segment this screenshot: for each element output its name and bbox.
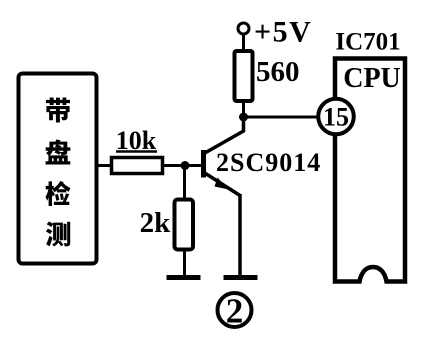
node: base junction dot — [181, 161, 190, 170]
label: Chinese char JIAN (检) — [46, 181, 71, 206]
svg-text:560: 560 — [256, 56, 300, 88]
wire: R 10k to transistor base — [163, 164, 202, 167]
resistor R 10k — [112, 158, 163, 174]
figure number circled 2 — [218, 293, 252, 327]
transistor collector lead — [204, 116, 244, 154]
svg-text:IC701: IC701 — [335, 29, 400, 56]
label: Chinese char DAI (带) — [46, 98, 70, 123]
wire: collector node to CPU pin 15 — [244, 116, 323, 119]
wire: junction down to R 2k — [183, 166, 186, 201]
svg-text:2SC9014: 2SC9014 — [216, 148, 321, 177]
resistor R 2k — [175, 200, 194, 250]
transistor emitter lead with arrow — [204, 173, 240, 196]
node: collector junction dot — [239, 113, 248, 122]
IC U1 CPU box with notch — [335, 59, 405, 282]
label: Chinese char PAN (盘) — [46, 140, 71, 165]
resistor R 560 — [235, 51, 253, 101]
wire: terminal to R 560 — [242, 34, 245, 52]
transistor Q1 2SC9014 base bar — [201, 150, 206, 178]
wire: box to R 10k — [96, 164, 113, 167]
terminal: +5V open circle — [238, 23, 249, 34]
wire: R 2k to ground — [183, 249, 186, 276]
svg-text:CPU: CPU — [343, 63, 401, 94]
svg-text:+5V: +5V — [254, 16, 312, 49]
wire: R 560 to collector node — [242, 101, 245, 117]
block: tape-detect box — [19, 74, 97, 264]
ground (left, under R 2k) — [167, 275, 201, 280]
svg-text:15: 15 — [323, 103, 349, 132]
label: Chinese char CE (测) — [46, 222, 70, 247]
svg-text:2: 2 — [226, 292, 244, 331]
svg-text:2k: 2k — [140, 207, 172, 239]
ground (right, under emitter) — [224, 275, 258, 280]
pin 15 circle — [318, 99, 354, 135]
